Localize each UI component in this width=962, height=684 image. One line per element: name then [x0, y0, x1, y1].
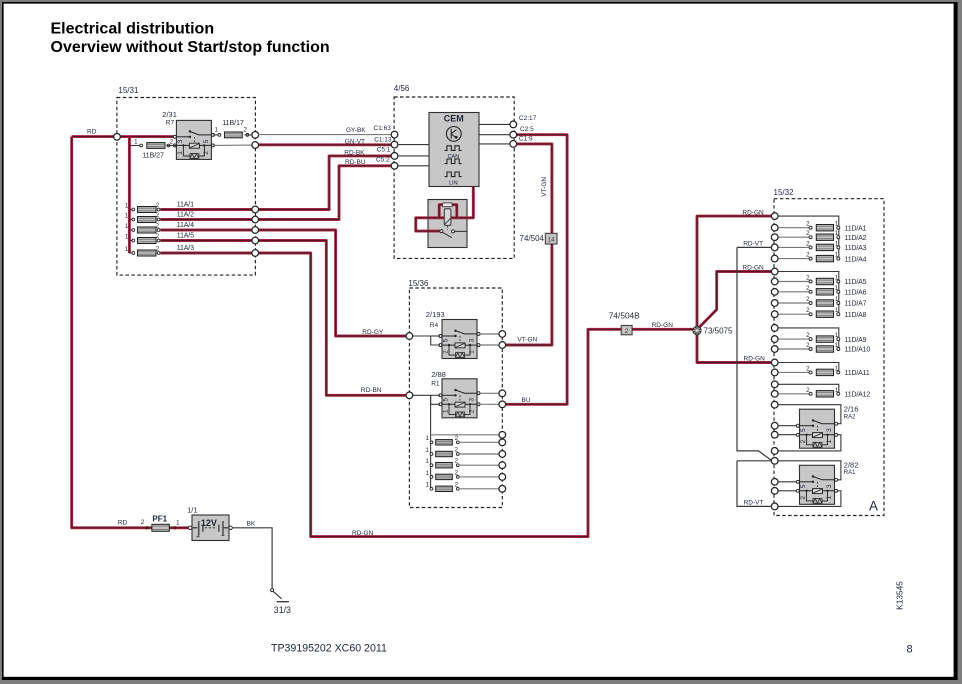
svg-text:C1:13: C1:13 [374, 136, 392, 143]
svg-text:+: + [196, 534, 200, 541]
svg-text:BK: BK [247, 521, 256, 528]
svg-text:15/36: 15/36 [408, 279, 429, 288]
svg-text:GY-BK: GY-BK [346, 127, 366, 134]
svg-text:2: 2 [806, 387, 810, 394]
svg-text:2/16: 2/16 [844, 405, 859, 414]
svg-text:1: 1 [835, 252, 839, 259]
svg-text:2: 2 [455, 469, 459, 476]
svg-text:RD-GN: RD-GN [352, 530, 374, 537]
svg-text:4/56: 4/56 [394, 84, 410, 93]
svg-text:VT-GN: VT-GN [541, 177, 548, 197]
svg-text:RD-GN: RD-GN [742, 265, 764, 272]
svg-text:11D/A7: 11D/A7 [845, 301, 867, 308]
svg-text:73/5075: 73/5075 [704, 327, 733, 336]
svg-text:C1:63: C1:63 [374, 125, 392, 132]
svg-text:5: 5 [203, 139, 210, 143]
svg-text:1: 1 [214, 126, 218, 133]
svg-text:PF1: PF1 [152, 514, 167, 523]
svg-text:1: 1 [835, 221, 839, 228]
svg-text:3: 3 [177, 139, 184, 143]
svg-text:2: 2 [800, 496, 807, 500]
svg-text:1: 1 [425, 482, 429, 489]
svg-text:2: 2 [806, 342, 810, 349]
svg-text:11D/A3: 11D/A3 [845, 245, 867, 252]
svg-text:2: 2 [806, 365, 810, 372]
svg-text:Overview without Start/stop fu: Overview without Start/stop function [51, 39, 330, 56]
svg-text:15/31: 15/31 [118, 86, 139, 95]
svg-text:2: 2 [243, 126, 247, 133]
svg-text:1: 1 [125, 223, 129, 230]
svg-text:RD-GN: RD-GN [652, 322, 674, 329]
svg-text:2: 2 [156, 223, 160, 230]
svg-text:1: 1 [826, 496, 833, 500]
svg-text:1: 1 [125, 246, 129, 253]
svg-text:Electrical distribution: Electrical distribution [51, 20, 215, 37]
svg-text:1: 1 [442, 409, 449, 413]
svg-text:2/31: 2/31 [162, 110, 177, 119]
svg-text:2: 2 [806, 240, 810, 247]
svg-text:2: 2 [455, 447, 459, 454]
svg-text:RA1: RA1 [844, 470, 856, 476]
svg-text:11D/A8: 11D/A8 [845, 312, 867, 319]
svg-text:3: 3 [469, 338, 476, 342]
svg-text:1: 1 [469, 350, 476, 354]
svg-text:2: 2 [455, 458, 459, 465]
svg-text:74/504: 74/504 [520, 234, 545, 243]
svg-text:2: 2 [442, 350, 449, 354]
svg-text:2: 2 [455, 481, 459, 488]
svg-text:5: 5 [442, 398, 449, 402]
svg-text:11A/4: 11A/4 [177, 222, 194, 229]
svg-text:−: − [221, 533, 225, 540]
svg-text:11A/3: 11A/3 [177, 245, 194, 252]
svg-text:1: 1 [835, 307, 839, 314]
svg-text:31/3: 31/3 [274, 605, 291, 615]
svg-text:VT-GN: VT-GN [517, 337, 537, 344]
svg-text:1: 1 [125, 212, 129, 219]
svg-text:1: 1 [835, 296, 839, 303]
svg-text:R7: R7 [166, 119, 175, 126]
svg-text:2: 2 [806, 285, 810, 292]
svg-text:2: 2 [806, 332, 810, 339]
svg-text:RD-VT: RD-VT [744, 499, 764, 506]
svg-text:11A/2: 11A/2 [177, 212, 194, 219]
svg-text:C2:5: C2:5 [520, 126, 534, 133]
svg-text:RD: RD [87, 129, 97, 136]
svg-text:3: 3 [826, 484, 833, 488]
svg-text:11B/17: 11B/17 [222, 118, 244, 127]
svg-text:A: A [869, 499, 878, 514]
svg-text:RD: RD [118, 520, 128, 527]
svg-text:LIN: LIN [449, 181, 458, 187]
svg-text:1: 1 [835, 285, 839, 292]
svg-text:3: 3 [469, 398, 476, 402]
svg-text:11D/A11: 11D/A11 [845, 370, 870, 377]
svg-text:11D/A2: 11D/A2 [845, 235, 867, 242]
svg-text:1: 1 [125, 202, 129, 209]
svg-text:2: 2 [170, 138, 174, 145]
svg-text:2: 2 [806, 307, 810, 314]
svg-text:8: 8 [907, 643, 913, 655]
svg-text:11D/A5: 11D/A5 [845, 279, 867, 286]
svg-text:1: 1 [134, 138, 138, 145]
svg-text:1: 1 [425, 470, 429, 477]
svg-text:5: 5 [800, 428, 807, 432]
svg-text:15/32: 15/32 [774, 188, 795, 197]
svg-text:RD-GY: RD-GY [362, 329, 384, 336]
svg-text:1: 1 [835, 240, 839, 247]
svg-text:2/82: 2/82 [844, 460, 859, 469]
svg-text:2: 2 [455, 435, 459, 442]
svg-text:3: 3 [826, 428, 833, 432]
svg-text:2: 2 [203, 151, 210, 155]
svg-text:11A/1: 11A/1 [177, 202, 194, 209]
svg-text:1: 1 [425, 458, 429, 465]
svg-text:RD-VT: RD-VT [743, 240, 763, 247]
svg-text:2: 2 [806, 275, 810, 282]
svg-text:2: 2 [800, 440, 807, 444]
svg-text:2: 2 [156, 246, 160, 253]
svg-text:74/504B: 74/504B [609, 310, 640, 320]
svg-text:RA2: RA2 [844, 414, 856, 420]
svg-text:2: 2 [469, 409, 476, 413]
svg-text:1: 1 [835, 275, 839, 282]
svg-text:5: 5 [442, 338, 449, 342]
svg-text:11B/27: 11B/27 [142, 150, 164, 159]
svg-text:2: 2 [806, 296, 810, 303]
svg-text:1: 1 [835, 342, 839, 349]
svg-text:K13545: K13545 [895, 581, 905, 610]
svg-text:R4: R4 [430, 322, 439, 329]
svg-text:11D/A10: 11D/A10 [845, 347, 871, 354]
svg-text:2: 2 [806, 252, 810, 259]
svg-text:RD-GN: RD-GN [744, 356, 766, 363]
svg-text:RD-BK: RD-BK [344, 149, 365, 156]
svg-text:1: 1 [826, 440, 833, 444]
svg-text:C2:17: C2:17 [519, 115, 537, 122]
svg-text:2/88: 2/88 [431, 370, 446, 379]
svg-text:14: 14 [548, 238, 555, 244]
svg-text:11D/A12: 11D/A12 [845, 392, 871, 399]
svg-text:RD-BU: RD-BU [345, 159, 366, 166]
svg-text:2: 2 [156, 202, 160, 209]
svg-text:1: 1 [835, 365, 839, 372]
svg-text:1: 1 [177, 151, 184, 155]
svg-text:1: 1 [835, 332, 839, 339]
svg-text:RD-GN: RD-GN [742, 209, 764, 216]
svg-text:11D/A9: 11D/A9 [845, 337, 867, 344]
svg-text:R1: R1 [431, 381, 440, 388]
svg-text:2: 2 [156, 233, 160, 240]
svg-text:C5:2: C5:2 [376, 156, 390, 163]
svg-text:1: 1 [835, 387, 839, 394]
svg-text:11D/A1: 11D/A1 [845, 225, 867, 232]
svg-text:GN-VT: GN-VT [345, 139, 365, 146]
svg-text:2: 2 [806, 230, 810, 237]
svg-text:1: 1 [425, 447, 429, 454]
svg-text:2/193: 2/193 [426, 310, 445, 319]
svg-text:RD-BN: RD-BN [361, 387, 382, 394]
svg-text:C5:1: C5:1 [377, 146, 391, 153]
svg-text:2: 2 [806, 221, 810, 228]
svg-text:1: 1 [425, 435, 429, 442]
svg-text:CEM: CEM [444, 113, 464, 123]
svg-text:11A/5: 11A/5 [177, 233, 194, 240]
svg-text:2: 2 [156, 212, 160, 219]
svg-text:TP39195202 XC60 2011: TP39195202 XC60 2011 [271, 642, 387, 654]
svg-text:BU: BU [522, 397, 531, 404]
svg-text:1: 1 [176, 519, 180, 526]
svg-text:2: 2 [141, 519, 145, 526]
svg-text:11D/A6: 11D/A6 [845, 290, 867, 297]
svg-text:5: 5 [800, 484, 807, 488]
svg-text:1: 1 [125, 233, 129, 240]
svg-text:1: 1 [835, 230, 839, 237]
svg-text:11D/A4: 11D/A4 [845, 256, 867, 263]
svg-text:C1:9: C1:9 [519, 135, 533, 142]
svg-text:1/1: 1/1 [187, 506, 197, 515]
